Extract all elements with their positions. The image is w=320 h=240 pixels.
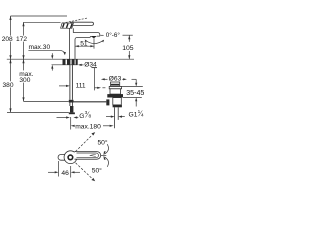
text max. 300 — [18, 70, 32, 82]
flange top reference line — [109, 86, 143, 88]
dimension 51 — [75, 45, 94, 47]
neck right stub — [72, 28, 74, 32]
svg-text:8: 8 — [89, 114, 92, 119]
waste lower body — [113, 98, 122, 105]
max300 bottom reference line — [24, 100, 69, 102]
svg-text:35-45: 35-45 — [126, 89, 144, 97]
nipple G3/8 — [70, 106, 73, 112]
handle slit — [90, 154, 96, 156]
tilt icon curve — [85, 40, 103, 44]
text 380 — [2, 81, 14, 87]
Ø34 leader — [78, 64, 82, 66]
tilt icon stem — [93, 38, 95, 48]
svg-text:4: 4 — [141, 113, 144, 118]
dimension 105 — [128, 35, 130, 42]
deck bottom line — [52, 64, 78, 66]
waste plug knob — [111, 82, 120, 87]
arc arrow top — [104, 144, 108, 154]
hub ring dark — [67, 154, 73, 160]
dashed swivel bottom with arrowhead — [76, 163, 93, 179]
svg-text:G1: G1 — [129, 111, 138, 118]
handle inner — [77, 153, 99, 158]
extension line top 208 — [11, 15, 68, 17]
rod ball joint — [106, 99, 109, 105]
lever raised dashed — [62, 18, 87, 23]
dimension 46 — [58, 161, 60, 177]
dimension max.180 — [70, 117, 72, 130]
dimension 111 leader — [59, 85, 66, 87]
svg-text:111: 111 — [76, 83, 86, 90]
handle outer — [75, 152, 101, 160]
spout underside and body right edge — [75, 37, 90, 59]
pull rod knob tick — [91, 67, 97, 69]
max.30 deck arrows — [51, 53, 53, 55]
svg-text:208: 208 — [2, 36, 13, 43]
locknut dark band — [113, 105, 122, 107]
dimension G1 1/4 arrows — [106, 116, 112, 118]
svg-text:Ø63: Ø63 — [109, 76, 122, 83]
axis line at handle tip — [101, 155, 106, 157]
pivot block — [61, 23, 74, 28]
text 172 — [15, 36, 27, 42]
dashed swivel top with arrowhead — [76, 135, 93, 152]
lower reference line — [123, 96, 142, 98]
waste upper body — [110, 89, 121, 94]
tailpipe — [114, 107, 116, 128]
svg-text:380: 380 — [2, 82, 13, 89]
dimension 35-45 — [135, 79, 137, 83]
mounting hardware at deck — [63, 60, 66, 65]
pull rod — [94, 68, 96, 91]
body left edge — [69, 28, 71, 59]
dimension 208/380 vertical — [10, 16, 12, 112]
svg-text:105: 105 — [122, 45, 134, 52]
svg-text:172: 172 — [16, 36, 27, 43]
text 208 — [1, 36, 13, 42]
svg-text:300: 300 — [19, 77, 30, 84]
svg-text:G: G — [79, 113, 84, 120]
washer dark band — [107, 94, 123, 97]
380 bottom reference line — [7, 111, 69, 113]
svg-text:max.180: max.180 — [75, 124, 101, 131]
body circle — [64, 151, 77, 164]
waste lever rod — [74, 101, 107, 103]
pull rod leader arrow — [97, 87, 101, 89]
svg-text:50°: 50° — [97, 138, 107, 146]
waste flange — [109, 87, 121, 89]
svg-text:50°: 50° — [92, 167, 102, 175]
lever bar — [71, 22, 94, 25]
svg-text:max.30: max.30 — [29, 44, 51, 51]
spout tab — [58, 155, 64, 161]
shank double line — [69, 65, 71, 100]
spout top and outlet edge — [73, 33, 100, 37]
dimension 172/max300 vertical — [23, 22, 25, 101]
hose junction nut — [69, 100, 74, 103]
dimension Ø63 — [101, 78, 105, 80]
arc arrow bottom — [104, 157, 108, 167]
extension line 172 lever top — [24, 21, 61, 23]
max.30 leader hook arrow — [55, 50, 65, 53]
nipple feet — [69, 112, 75, 114]
svg-text:0°-6°: 0°-6° — [106, 31, 121, 39]
dimension G3/8 arrows — [57, 117, 67, 119]
text 0°-6° with leader dashes — [100, 34, 103, 36]
outlet mouth dark wedge — [90, 36, 97, 38]
svg-text:46: 46 — [61, 170, 69, 177]
deck top line — [7, 58, 134, 60]
